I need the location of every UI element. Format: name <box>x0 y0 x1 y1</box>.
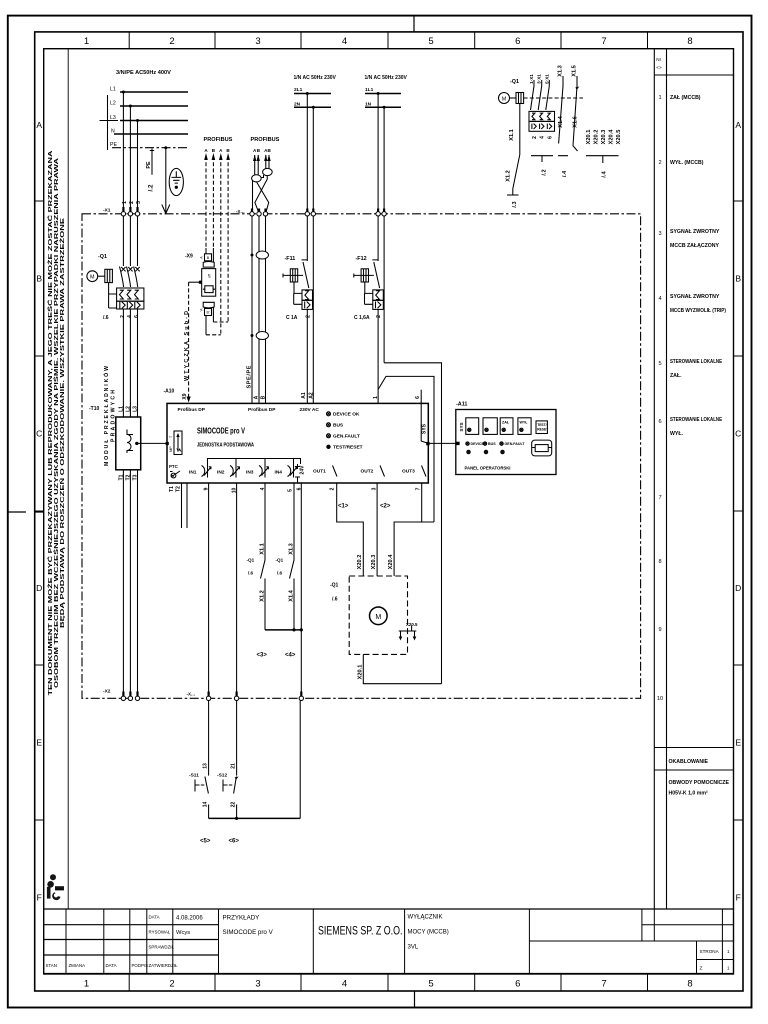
svg-text:SPRAWDZIŁ: SPRAWDZIŁ <box>149 945 175 950</box>
svg-text:C 1A: C 1A <box>286 315 298 321</box>
svg-text:Z: Z <box>700 966 703 971</box>
svg-text:H05V-K 1,0 mm²: H05V-K 1,0 mm² <box>669 791 708 797</box>
svg-text:BUS: BUS <box>488 442 496 446</box>
S11 wire lower <box>208 805 210 819</box>
S11 pushbutton <box>195 777 208 794</box>
centering mark bottom <box>414 991 416 1008</box>
F12 magnetic release box <box>373 300 384 309</box>
ref /4 under X20 <box>601 171 607 178</box>
svg-text:SIMOCODE pro V: SIMOCODE pro V <box>197 427 245 436</box>
X1.3 X1.4 aux contact <box>558 65 565 128</box>
title block strona <box>700 949 731 971</box>
T1 T2 stub wires <box>182 483 188 528</box>
wire block SYS to panel <box>428 442 456 444</box>
svg-text:STEROWANIE LOKALNE: STEROWANIE LOKALNE <box>670 359 722 365</box>
svg-text:D: D <box>735 583 741 593</box>
svg-text:STEROWANIE LOKALNE: STEROWANIE LOKALNE <box>670 417 722 423</box>
wire branch to OUT feed <box>378 376 434 522</box>
svg-text:X1.2: X1.2 <box>260 590 266 602</box>
svg-text:RESET: RESET <box>537 428 548 432</box>
svg-text:1: 1 <box>122 201 128 204</box>
svg-text:1: 1 <box>727 966 730 971</box>
X1 pin numbers <box>122 201 142 204</box>
svg-text:8: 8 <box>687 979 692 990</box>
svg-text:-Q1: -Q1 <box>330 583 339 589</box>
supply2 terminals <box>376 212 380 216</box>
svg-text:F: F <box>736 893 741 903</box>
Q1 right mechanical dashed link <box>524 97 583 99</box>
supply2 terminal stubs <box>378 209 384 213</box>
svg-text:A: A <box>36 120 42 130</box>
Q1 right pins bar <box>531 156 553 162</box>
svg-text:F: F <box>37 893 42 903</box>
svg-text:/.6: /.6 <box>103 315 109 321</box>
svg-text:STAN: STAN <box>46 963 57 968</box>
svg-text:PE: PE <box>146 161 152 169</box>
svg-text:1·X1: 1·X1 <box>529 74 534 84</box>
svg-text:E: E <box>735 738 741 748</box>
svg-text:C 1,6A: C 1,6A <box>354 315 370 321</box>
svg-text:4: 4 <box>342 36 347 47</box>
centering mark left <box>9 511 44 513</box>
svg-text:7: 7 <box>415 487 421 490</box>
SIMOCODE basic unit block <box>167 403 428 483</box>
svg-text:ZAŁ (MCCB): ZAŁ (MCCB) <box>670 95 701 101</box>
svg-text:7: 7 <box>601 979 606 990</box>
/2 reference at PE <box>148 184 155 191</box>
svg-text:2: 2 <box>532 136 538 139</box>
block pin 6 stub <box>420 390 422 404</box>
svg-text:1: 1 <box>373 396 379 399</box>
svg-text:GEN.FAULT: GEN.FAULT <box>333 434 360 440</box>
ground symbol <box>169 168 183 195</box>
bus line L2 <box>120 105 188 107</box>
Q1 motor operator M circle <box>87 271 98 282</box>
wires X1 to Q1 <box>123 216 137 266</box>
svg-text:6: 6 <box>515 36 520 47</box>
svg-text:X20.2: X20.2 <box>594 130 600 145</box>
svg-text:1: 1 <box>727 949 730 954</box>
svg-text:WYŁ: WYŁ <box>520 421 529 425</box>
block input dot from T10 <box>166 442 169 445</box>
svg-text:24V: 24V <box>300 465 306 475</box>
svg-text:2: 2 <box>169 979 174 990</box>
IN4 wire with Q1 aux contact <box>290 483 295 630</box>
F12 wire from terminal <box>378 216 384 363</box>
svg-text:Nr: Nr <box>656 57 661 62</box>
svg-text:3/N/PE AC50Hz 400V: 3/N/PE AC50Hz 400V <box>116 70 171 76</box>
bus label bracket <box>100 95 119 150</box>
title block right columns <box>529 909 733 974</box>
svg-text:/.6: /.6 <box>332 597 338 603</box>
svg-text:WYŁ.: WYŁ. <box>670 431 684 437</box>
svg-text:STRONA: STRONA <box>700 949 720 954</box>
svg-text:TEN DOKUMENT NIE MOŻE BYĆ PRZE: TEN DOKUMENT NIE MOŻE BYĆ PRZEKAZYWANY L… <box>46 151 54 696</box>
svg-text:TEST/: TEST/ <box>537 423 546 427</box>
svg-text:-Q1: -Q1 <box>98 254 107 260</box>
svg-text:6: 6 <box>547 136 553 139</box>
F12 wire to block pin 1 <box>377 309 379 403</box>
svg-text:-X9: -X9 <box>185 254 193 260</box>
zone numbers bottom <box>84 979 693 990</box>
bottom terminals <box>206 696 210 700</box>
block T MP labels <box>169 435 173 452</box>
svg-text:2: 2 <box>330 487 336 490</box>
svg-text:PE: PE <box>110 142 117 148</box>
svg-text:WYŁ. (MCCB): WYŁ. (MCCB) <box>670 160 704 166</box>
svg-text:-T10: -T10 <box>89 406 100 412</box>
svg-text:5: 5 <box>288 489 294 492</box>
svg-text:/.4: /.4 <box>601 171 607 178</box>
svg-text:X20.5: X20.5 <box>616 130 622 145</box>
svg-text:X1.1: X1.1 <box>509 129 515 141</box>
Q1 right release box <box>529 111 555 131</box>
dash-dot enclosure box <box>82 214 641 699</box>
svg-text:A2: A2 <box>308 392 314 399</box>
Q1 right poles <box>531 80 550 110</box>
svg-text:9: 9 <box>658 627 661 633</box>
svg-text:6: 6 <box>415 396 421 399</box>
svg-text:Profibus DP: Profibus DP <box>248 407 276 413</box>
svg-text:B: B <box>260 395 266 399</box>
T10 input labels L1 L2 L3 <box>118 406 138 412</box>
svg-text:-X…: -X… <box>187 692 196 697</box>
IN3 wire with Q1 aux contact <box>261 483 266 630</box>
svg-text:-X…: -X… <box>236 209 245 214</box>
X20 bar <box>586 156 619 163</box>
supply1 terminal stubs <box>307 209 313 213</box>
svg-text:SIMOCODE pro V: SIMOCODE pro V <box>223 929 274 936</box>
Q1 operator link <box>98 275 105 277</box>
supply1 drops <box>306 92 309 95</box>
svg-text:2: 2 <box>376 315 382 318</box>
svg-text:OKABLOWANIE: OKABLOWANIE <box>669 759 709 765</box>
svg-text:SYGNAŁ ZWROTNY: SYGNAŁ ZWROTNY <box>670 294 720 300</box>
svg-text:2: 2 <box>658 160 661 166</box>
X20.2-4 labels <box>357 554 394 570</box>
svg-text:/.6: /.6 <box>277 571 283 576</box>
svg-text:1: 1 <box>84 979 89 990</box>
block LEDs <box>333 412 363 451</box>
svg-text:-S12: -S12 <box>217 773 227 779</box>
X2 terminals <box>121 696 125 700</box>
A11 buttons row <box>466 418 548 435</box>
svg-text:-F11: -F11 <box>285 256 296 262</box>
svg-text:21: 21 <box>230 763 236 769</box>
X1.1 X1.2 aux contact <box>513 104 520 196</box>
wire L1 drop <box>122 92 124 207</box>
F11 thermal release box <box>302 290 313 300</box>
svg-text:E: E <box>36 738 42 748</box>
svg-text:-S11: -S11 <box>189 773 199 779</box>
svg-text:M: M <box>90 275 95 281</box>
supply1 terminals <box>305 212 309 216</box>
svg-text:2: 2 <box>169 36 174 47</box>
wires Q1 to T10 <box>123 309 137 417</box>
svg-text:3: 3 <box>136 201 142 204</box>
A11 LED labels row <box>471 442 526 446</box>
svg-text:Wcys: Wcys <box>176 930 190 936</box>
svg-text:4.08.2006: 4.08.2006 <box>176 916 203 922</box>
svg-text:1/N AC 50Hz 230V: 1/N AC 50Hz 230V <box>294 75 337 81</box>
svg-text:<3>: <3> <box>257 653 268 659</box>
profibus2 pin letters <box>253 148 272 153</box>
svg-text:-A10: -A10 <box>164 389 175 395</box>
right notes table row numbers <box>657 95 663 702</box>
tap dots L1 L2 L3 <box>122 91 125 94</box>
F12 thermal release box <box>373 290 384 300</box>
svg-text:M: M <box>375 614 381 621</box>
modul przekladnikow text <box>102 366 117 466</box>
svg-text:5: 5 <box>428 36 433 47</box>
svg-text:SYGNAŁ ZWROTNY: SYGNAŁ ZWROTNY <box>670 229 720 235</box>
svg-text:-X1: -X1 <box>103 208 111 214</box>
svg-text:L1: L1 <box>118 406 124 412</box>
svg-text:BUS: BUS <box>333 423 344 429</box>
svg-text:5·X1: 5·X1 <box>544 74 549 84</box>
Q1 bottom pin numbers <box>120 315 140 318</box>
svg-text:5: 5 <box>428 979 433 990</box>
svg-text:4: 4 <box>540 136 546 139</box>
svg-text:L2: L2 <box>110 101 116 107</box>
bus line L3 <box>120 120 188 122</box>
svg-text:X1.3: X1.3 <box>289 543 295 555</box>
svg-text:PROFIBUS: PROFIBUS <box>251 137 280 143</box>
block inputs IN1-IN4 <box>189 470 282 476</box>
bottom return bar <box>209 817 301 819</box>
svg-text:<4>: <4> <box>285 653 296 659</box>
IN1 wire down <box>208 483 210 696</box>
zone numbers top <box>84 36 693 47</box>
svg-text:X1.5: X1.5 <box>572 65 578 77</box>
A11 button LEDs <box>468 428 524 431</box>
F12 pin 2 <box>376 315 382 318</box>
PE drop wire with arrow <box>162 148 170 214</box>
bus line N <box>114 133 188 135</box>
block pins A1 A2 <box>301 392 314 399</box>
svg-text:A1: A1 <box>301 392 307 399</box>
svg-text:<6>: <6> <box>229 839 240 845</box>
profibus2 terminal stubs <box>252 209 266 213</box>
wtyczka sub-d label <box>184 311 190 381</box>
svg-text:MOCY (MCCB): MOCY (MCCB) <box>408 930 449 936</box>
wires T10 to X2 <box>123 470 137 696</box>
svg-text:JEDNOSTKA PODSTAWOWA: JEDNOSTKA PODSTAWOWA <box>197 443 254 449</box>
Q1 release box magnetic <box>117 301 144 309</box>
svg-text:X9: X9 <box>182 393 188 399</box>
svg-text:10: 10 <box>657 696 663 702</box>
block bottom pin labels <box>169 486 421 493</box>
svg-text:X1.4: X1.4 <box>289 589 295 601</box>
svg-text:7: 7 <box>658 495 661 501</box>
svg-text:<>: <> <box>656 65 662 70</box>
OUT2 wire to motor X20.3 <box>376 483 378 576</box>
svg-text:1: 1 <box>84 36 89 47</box>
svg-text:MP: MP <box>169 446 173 452</box>
profibus2 wires down to block <box>252 216 266 403</box>
motor M circle <box>370 607 388 625</box>
svg-text:C: C <box>735 429 741 439</box>
svg-text:X20.4: X20.4 <box>609 129 615 145</box>
svg-text:<2>: <2> <box>380 504 391 510</box>
svg-text:-Q1: -Q1 <box>276 558 284 563</box>
svg-text:ZMIANA: ZMIANA <box>69 963 86 968</box>
svg-text:MCCB WYZWOLIŁ (TRIP): MCCB WYZWOLIŁ (TRIP) <box>670 308 726 314</box>
Q1 right pole labels <box>529 74 549 84</box>
svg-text:SYS: SYS <box>421 423 427 434</box>
svg-text:PROFIBUS: PROFIBUS <box>204 137 233 143</box>
svg-text:/.2: /.2 <box>542 169 548 175</box>
IN2 wire down <box>236 483 238 696</box>
svg-text:ZAŁ: ZAŁ <box>502 421 510 425</box>
svg-text:IN1: IN1 <box>189 470 197 476</box>
svg-text:ZATWIERDZIŁ: ZATWIERDZIŁ <box>149 963 179 968</box>
svg-text:13: 13 <box>202 763 208 769</box>
S12 pushbutton <box>223 777 236 794</box>
A11 SYS port <box>459 422 464 431</box>
X20.1 return wire <box>363 654 441 683</box>
block outputs OUT1-3 <box>313 469 415 475</box>
svg-text:ENCO: ENCO <box>56 887 63 891</box>
S12 wire upper <box>236 701 238 776</box>
svg-text:BĘDĄ PODSTAWĄ DO ROSZCZEŃ O OD: BĘDĄ PODSTAWĄ DO ROSZCZEŃ O ODSZKODOWANI… <box>58 218 66 628</box>
block pin 1 <box>373 396 379 399</box>
zone letters right <box>735 120 741 903</box>
X9 plug solid wire tails <box>206 248 213 335</box>
block pin letters A B <box>254 395 267 399</box>
A11 display window <box>532 440 552 456</box>
svg-text:TEST/RESET: TEST/RESET <box>333 445 363 451</box>
profibus2 short arrows <box>255 155 269 175</box>
svg-text:6: 6 <box>134 315 140 318</box>
svg-text:2: 2 <box>129 201 135 204</box>
svg-text:-F12: -F12 <box>356 256 367 262</box>
Q1 pole pin labels <box>121 267 140 271</box>
svg-text:2: 2 <box>305 315 311 318</box>
svg-text:PRĄDOWYCH: PRĄDOWYCH <box>111 390 117 442</box>
svg-text:IN4: IN4 <box>275 470 283 476</box>
logo <box>47 874 64 900</box>
svg-text:3: 3 <box>255 979 260 990</box>
OUT3 wire to motor X20.4 <box>394 483 434 576</box>
svg-text:RYSOWAŁ: RYSOWAŁ <box>149 930 171 935</box>
SYS label and internal wire <box>421 423 427 434</box>
X9 plug tap dot <box>199 281 202 284</box>
svg-text:PRZYKŁADY: PRZYKŁADY <box>223 915 260 922</box>
copyright notice vertical text <box>46 151 66 696</box>
svg-text:A: A <box>735 120 741 130</box>
Q1 right bottom pins 2 4 6 <box>532 136 553 139</box>
svg-text:3VL: 3VL <box>408 945 419 951</box>
profibus2 connector ovals <box>252 175 262 182</box>
svg-text:L2: L2 <box>125 406 131 412</box>
X2 terminal stubs <box>123 692 137 697</box>
svg-text:A: A <box>254 395 260 399</box>
F11 pin 2 <box>305 315 311 318</box>
bottom terminal stubs <box>209 692 302 697</box>
svg-text:OSOBOM TRZECIM BEZ WCZEŚNIEJSZ: OSOBOM TRZECIM BEZ WCZEŚNIEJSZEGO UZYSKA… <box>53 158 60 688</box>
title block frame <box>44 909 734 974</box>
svg-text:X20.1: X20.1 <box>357 665 363 680</box>
svg-text:IN2: IN2 <box>217 470 225 476</box>
svg-text:SIEMENS SP. Z O.O.: SIEMENS SP. Z O.O. <box>318 926 403 938</box>
bus line PE dashed <box>112 147 188 149</box>
Q1 pole blades <box>120 267 138 288</box>
zone column dividers top row <box>129 32 647 49</box>
svg-text:MODUŁ PRZEKŁADNIKÓW: MODUŁ PRZEKŁADNIKÓW <box>102 366 110 466</box>
svg-text:DATA: DATA <box>106 963 117 968</box>
supply2 drops <box>377 92 380 95</box>
svg-text:2L1: 2L1 <box>294 87 303 93</box>
ref /2 under pins <box>542 169 548 175</box>
svg-text:OUT2: OUT2 <box>361 469 374 475</box>
X1 terminal bold stubs <box>123 207 137 212</box>
F11 breaker blade <box>302 260 309 288</box>
zone column dividers bottom row <box>129 974 647 991</box>
PE tap dot <box>164 146 167 149</box>
copyright column line <box>67 49 69 909</box>
svg-text:OBWODY POMOCNICZE: OBWODY POMOCNICZE <box>669 780 730 786</box>
profibus1 pin letters <box>204 148 230 153</box>
svg-text:/.4: /.4 <box>562 170 568 177</box>
profibus2 ferrite oval upper <box>256 251 268 259</box>
svg-text:DATA: DATA <box>149 915 160 920</box>
X20 terminal labels <box>586 129 622 145</box>
svg-text:X1.2: X1.2 <box>506 170 512 182</box>
svg-text:OUT3: OUT3 <box>402 469 415 475</box>
svg-text:/.3: /.3 <box>512 201 518 207</box>
block T/MP connector box <box>174 431 182 455</box>
profibus1 dashed cable with up arrows <box>206 156 228 335</box>
svg-text:/.6: /.6 <box>248 571 254 576</box>
svg-text:SYS: SYS <box>459 422 464 431</box>
T10 CT symbol <box>127 430 133 454</box>
svg-text:X20.3: X20.3 <box>601 130 607 145</box>
svg-text:X1.3: X1.3 <box>558 65 564 77</box>
svg-text:PTC: PTC <box>169 464 179 469</box>
svg-text:B: B <box>36 274 42 284</box>
right notes table row texts <box>670 95 726 437</box>
svg-text:L1: L1 <box>110 87 116 93</box>
svg-text:X1.6: X1.6 <box>573 116 579 128</box>
junction bar to 24V return <box>265 629 301 631</box>
profibus2 crossing wires <box>253 176 269 213</box>
right notes table header Nr <box>656 57 662 70</box>
T10 bottom labels T1 T2 T3 <box>118 474 138 480</box>
profibus1 dashed bottom links <box>206 322 228 335</box>
svg-text:X20.2: X20.2 <box>357 555 363 570</box>
right notes table frame <box>654 49 733 909</box>
svg-text:<5>: <5> <box>200 839 211 845</box>
svg-text:ZAŁ.: ZAŁ. <box>670 373 682 379</box>
svg-text:4: 4 <box>658 296 661 302</box>
motor dashed box <box>349 576 407 654</box>
svg-text:C: C <box>36 429 42 439</box>
svg-text:X20.3: X20.3 <box>371 555 377 570</box>
svg-text:WYŁĄCZNIK: WYŁĄCZNIK <box>408 915 443 921</box>
svg-text:X20.4: X20.4 <box>388 554 394 570</box>
+24V bracket over inputs <box>208 459 301 465</box>
svg-text:6: 6 <box>658 419 661 425</box>
bus line L1 <box>120 91 188 93</box>
svg-text:1: 1 <box>658 95 661 101</box>
OUT1 wire to motor X20.2 <box>337 483 364 576</box>
F12 actuator cross box <box>354 269 374 305</box>
A11 operator panel box <box>456 410 556 475</box>
svg-text:14: 14 <box>202 802 208 808</box>
svg-text:-Q1: -Q1 <box>247 558 255 563</box>
S12 pin 21 <box>230 763 236 769</box>
